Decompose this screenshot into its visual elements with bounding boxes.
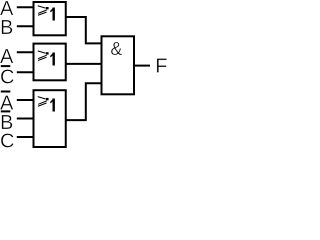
wire C to U3 — [17, 136, 34, 138]
wire B to U1 — [17, 25, 34, 27]
OR gate U1 label 1 — [50, 7, 55, 20]
OR gate U3 label 1 — [50, 98, 55, 111]
OR gate U1 label ≥ — [38, 6, 47, 16]
svg-text:C: C — [0, 67, 14, 89]
OR gate U2 box — [34, 44, 66, 81]
svg-text:B: B — [0, 17, 13, 39]
wire A to U1 — [17, 6, 34, 8]
wire A-bar to U3 — [17, 99, 34, 101]
OR gate U3 label ≥ — [38, 97, 47, 107]
wire U1 output to U4 input 1 — [66, 17, 102, 43]
OR gate U2 label ≥ — [38, 51, 47, 61]
NOT bar over A (gate 3) — [1, 91, 11, 93]
NOT bar over C (gate 2) — [1, 65, 11, 67]
wire A to U2 — [17, 51, 34, 53]
wire U2 output to U4 input 2 — [66, 63, 102, 65]
svg-text:F: F — [155, 56, 167, 78]
OR gate U3 box — [34, 90, 66, 147]
NOT bar over B (gate 3) — [1, 110, 11, 112]
wire U4 output to F — [134, 65, 150, 67]
svg-text:A: A — [0, 46, 14, 68]
wire C-bar to U2 — [17, 71, 34, 73]
svg-text:&: & — [110, 39, 122, 59]
svg-text:C: C — [0, 130, 14, 152]
wire U3 output to U4 input 3 — [66, 83, 102, 120]
OR gate U1 box — [34, 2, 66, 35]
AND gate U4 box — [102, 36, 135, 94]
wire B-bar to U3 — [17, 118, 34, 120]
OR gate U2 label 1 — [50, 52, 55, 65]
